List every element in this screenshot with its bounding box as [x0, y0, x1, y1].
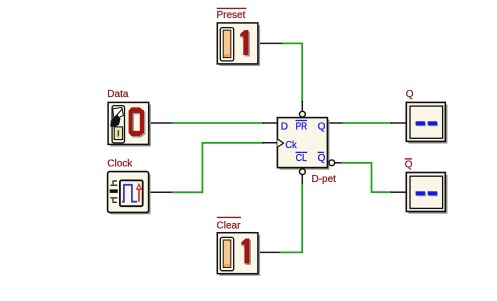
svg-text:CL: CL [296, 153, 308, 164]
CL input bubble [300, 169, 306, 175]
svg-text:Clock: Clock [107, 159, 133, 170]
label Data [107, 89, 129, 100]
svg-text:PR: PR [296, 122, 308, 133]
probe P2 Q-bar output [406, 173, 447, 214]
switch S4 Clear [217, 233, 260, 276]
wire from Clear switch to CL pin [258, 175, 302, 252]
svg-text:Clear: Clear [217, 220, 242, 231]
label D-pet [312, 174, 337, 185]
clock wedge on Ck input [277, 139, 283, 147]
probe P1 Q output [406, 102, 447, 143]
wire from Preset switch to PR pin [258, 43, 302, 111]
label Q [406, 89, 414, 100]
svg-text:Preset: Preset [217, 10, 246, 21]
svg-text:Ck: Ck [285, 140, 297, 151]
svg-text:Data: Data [107, 89, 129, 100]
label Clock [107, 159, 133, 170]
svg-text:Q: Q [406, 89, 414, 100]
wire from Clock generator to Ck pin [148, 143, 277, 193]
wire from Data switch to D pin [149, 122, 278, 124]
clock generator S3 [108, 172, 151, 215]
switch S1 Preset [217, 23, 260, 66]
svg-text:D-pet: D-pet [312, 174, 337, 185]
Q-bar output bubble [329, 160, 335, 166]
label Clear (with overline) [217, 217, 242, 231]
label Q-bar (with overline) [405, 159, 413, 170]
switch S2 Data [108, 102, 151, 146]
svg-text:Q: Q [318, 122, 326, 133]
wire from Q output to Q probe [328, 122, 406, 124]
svg-text:Q: Q [405, 159, 413, 170]
label Preset (with overline) [217, 8, 247, 21]
svg-text:Q: Q [318, 153, 326, 164]
PR input bubble [300, 111, 306, 117]
svg-text:D: D [281, 122, 288, 133]
wire from Q-bar output to Q-bar probe [335, 163, 406, 192]
D flip-flop U1 [277, 111, 334, 174]
